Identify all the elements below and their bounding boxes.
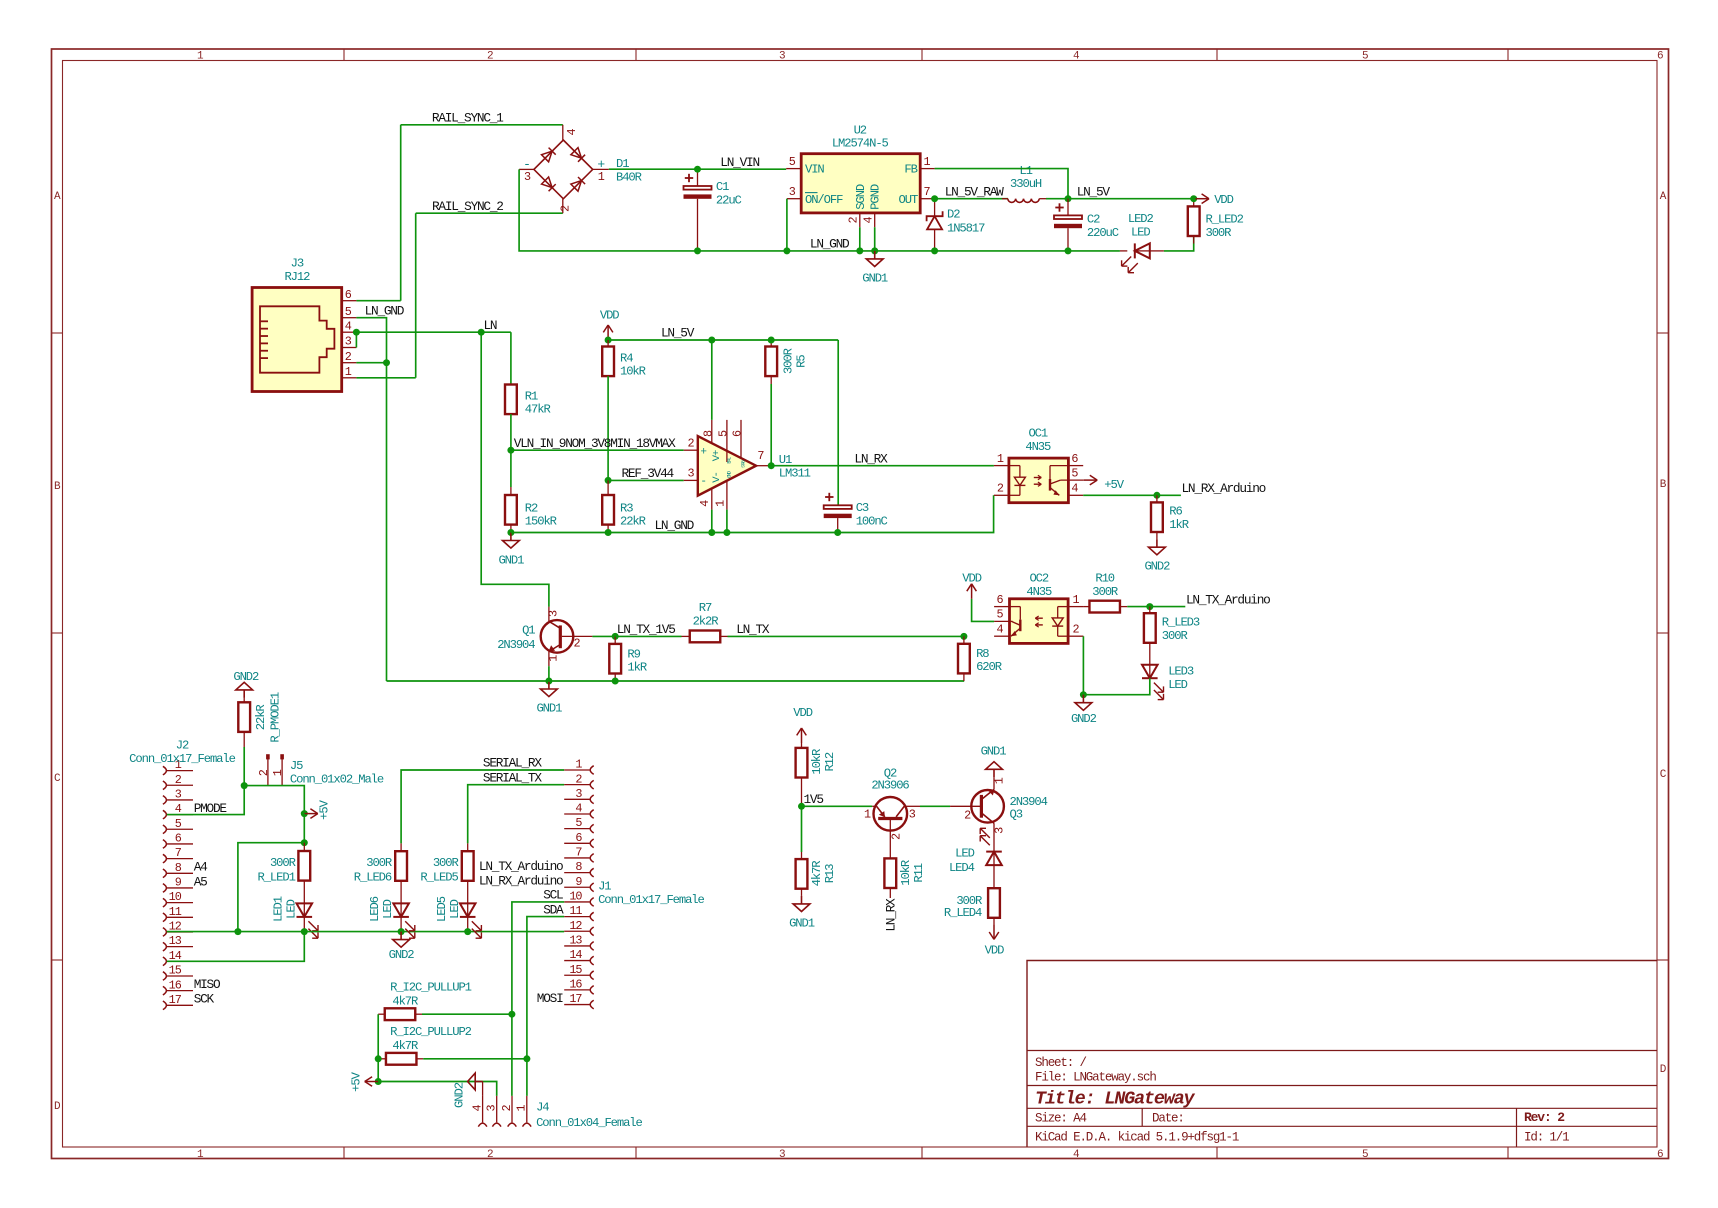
wire J3 pin5 LN_GND down [356, 318, 386, 681]
svg-text:7: 7 [923, 185, 930, 199]
svg-text:8: 8 [575, 860, 582, 874]
wire opamp pin1 gnd [726, 510, 728, 533]
svg-text:2: 2 [175, 773, 182, 787]
label J2 Conn_01x17_Female [129, 738, 235, 766]
junction Q1 emitter [545, 678, 552, 685]
capacitor C2 220uC [1054, 199, 1082, 251]
ground GND2 at J4 [468, 1073, 483, 1096]
svg-text:R7: R7 [699, 601, 712, 615]
svg-text:4N35: 4N35 [1025, 440, 1051, 454]
resistor R_LED2 [1188, 199, 1200, 244]
svg-text:1: 1 [345, 365, 352, 379]
junction ON/OFF gnd [783, 247, 790, 254]
svg-text:47kR: 47kR [525, 403, 551, 417]
svg-text:GND1: GND1 [981, 745, 1007, 759]
label C3 100nC [856, 501, 888, 529]
ground GND1 below R2 [510, 533, 512, 541]
svg-text:1: 1 [864, 807, 871, 821]
label OC1 4N35 [1025, 427, 1051, 454]
connector J2 Conn_01x17_Female [163, 758, 193, 1009]
svg-text:J3: J3 [291, 257, 304, 271]
wire 1V5 to Q2 [802, 805, 873, 807]
svg-text:6: 6 [731, 430, 745, 437]
wire J3 pin3 link [355, 332, 357, 347]
junction J3 pin4 [353, 329, 360, 336]
svg-text:2: 2 [890, 833, 904, 840]
resistor R11 10kR [884, 852, 896, 898]
svg-text:3: 3 [175, 788, 182, 802]
svg-text:4: 4 [1073, 51, 1080, 63]
wire R5 to output [770, 384, 772, 466]
label D2 1N5817 [947, 208, 985, 236]
wire SCL [512, 902, 564, 1096]
label LED2 [1128, 212, 1154, 239]
svg-text:SERIAL_RX: SERIAL_RX [483, 756, 542, 771]
wire LN_GND mid rail [511, 495, 994, 532]
svg-text:R6: R6 [1169, 505, 1182, 519]
svg-text:220uC: 220uC [1087, 226, 1119, 240]
svg-text:2: 2 [487, 51, 493, 63]
svg-text:300R: 300R [366, 856, 392, 870]
junction branch pin12 [234, 928, 241, 935]
junction LED5 bottom [464, 928, 471, 935]
svg-text:Conn_01x17_Female: Conn_01x17_Female [129, 752, 235, 766]
label R_LED4 300R [944, 894, 982, 920]
wire SERIAL_RX [401, 770, 564, 843]
svg-text:LN: LN [484, 318, 497, 333]
wire SERIAL_TX [468, 785, 565, 844]
svg-text:LN_TX_Arduino: LN_TX_Arduino [479, 859, 563, 874]
svg-text:B: B [54, 481, 61, 493]
svg-text:LM311: LM311 [779, 466, 811, 480]
svg-text:Q1: Q1 [522, 624, 535, 638]
wire GND1 rail [387, 680, 965, 682]
junction R8 top [960, 633, 967, 640]
wire FB loop [935, 169, 1068, 199]
svg-text:Conn_01x17_Female: Conn_01x17_Female [598, 893, 704, 907]
svg-text:Size: A4: Size: A4 [1035, 1112, 1086, 1126]
resistor R_LED3 [1144, 607, 1156, 665]
svg-text:4k7R: 4k7R [392, 1039, 418, 1053]
svg-text:R5: R5 [794, 355, 808, 368]
label R13 4k7R [810, 861, 837, 887]
junction GND2 OC2 [1080, 691, 1087, 698]
wire Q1 base to LN_TX_1V5 [592, 635, 615, 637]
svg-text:5: 5 [789, 155, 796, 169]
svg-text:10kR: 10kR [620, 364, 646, 378]
svg-text:4: 4 [862, 216, 876, 223]
wire OC2 pin2 to GND2 [1083, 636, 1149, 695]
svg-text:SCK: SCK [194, 992, 215, 1007]
svg-text:LED2: LED2 [1128, 212, 1154, 226]
svg-text:GND2: GND2 [453, 1082, 467, 1108]
junction C2 bottom [1065, 247, 1072, 254]
resistor R1 [505, 385, 517, 415]
svg-text:A: A [1660, 191, 1667, 203]
svg-text:J1: J1 [598, 880, 611, 894]
svg-text:2: 2 [257, 769, 271, 776]
bridge rectifier D1 [519, 125, 609, 213]
svg-text:FB: FB [904, 163, 917, 177]
junction R_LED3 top [1146, 603, 1153, 610]
resistor R10 300R [1083, 601, 1127, 613]
label D1 B40R [616, 157, 642, 185]
svg-text:1kR: 1kR [1169, 518, 1188, 532]
svg-text:VDD: VDD [985, 944, 1004, 958]
wire PMODE [167, 786, 244, 815]
svg-text:8: 8 [175, 861, 182, 875]
svg-text:LN_VIN: LN_VIN [720, 155, 759, 170]
svg-text:5: 5 [1071, 466, 1078, 480]
label R6 1kR [1169, 505, 1188, 533]
svg-text:GND2: GND2 [389, 948, 415, 962]
svg-text:2: 2 [500, 1104, 514, 1111]
junction R9 bottom [612, 678, 619, 685]
svg-text:8: 8 [702, 430, 716, 437]
wire LN_TX [728, 635, 964, 637]
svg-text:620R: 620R [976, 660, 1002, 674]
optocoupler OC1 4N35 [994, 452, 1084, 503]
svg-text:C3: C3 [856, 501, 869, 515]
diode D2 1N5817 [927, 199, 943, 251]
resistor R12 10kR [796, 743, 808, 806]
junction R_LED2 top [1190, 195, 1197, 202]
label R_LED2 300R [1206, 212, 1244, 240]
power +5V at J5 [304, 813, 318, 815]
svg-text:2: 2 [847, 216, 861, 223]
resistor R3 [602, 480, 614, 532]
svg-text:4: 4 [698, 500, 712, 507]
transistor Q1 2N3904 [541, 607, 593, 667]
wire Q1 emitter to rail [548, 666, 550, 681]
led LED3 [1142, 665, 1164, 700]
svg-text:1: 1 [713, 500, 727, 507]
svg-text:RJ12: RJ12 [284, 270, 310, 284]
svg-text:GND1: GND1 [862, 271, 888, 285]
capacitor C3 100nC [824, 493, 852, 533]
resistor R5 [765, 340, 777, 384]
svg-text:2: 2 [964, 809, 971, 823]
svg-text:10: 10 [569, 890, 582, 904]
junction C3 bottom [834, 529, 841, 536]
svg-text:OC1: OC1 [1028, 427, 1047, 441]
svg-text:R_LED2: R_LED2 [1206, 212, 1244, 226]
svg-text:OUT: OUT [899, 193, 918, 207]
label R_LED6 300R [354, 856, 392, 884]
led LED1 [297, 903, 319, 938]
svg-text:4k7R: 4k7R [392, 995, 418, 1009]
svg-text:V+: V+ [711, 450, 723, 461]
junction pin1 gnd [723, 529, 730, 536]
svg-text:4: 4 [996, 622, 1003, 636]
svg-text:2N3904: 2N3904 [497, 638, 535, 652]
label R9 1kR [627, 648, 646, 675]
junction opamp output [768, 462, 775, 469]
ground GND1 below Q1 [548, 681, 550, 689]
junction +5V J4 [375, 1078, 382, 1085]
svg-text:3: 3 [547, 610, 561, 617]
svg-text:5: 5 [175, 817, 182, 831]
label C1 22uC [716, 180, 742, 208]
svg-text:R_I2C_PULLUP2: R_I2C_PULLUP2 [390, 1025, 472, 1039]
svg-text:C: C [54, 773, 61, 785]
junction LN_TX_1V5 [612, 633, 619, 640]
svg-text:LED: LED [448, 899, 462, 918]
junction R2 bottom [507, 529, 514, 536]
svg-text:2: 2 [997, 482, 1004, 496]
svg-text:5: 5 [996, 608, 1003, 622]
ground GND1 below R13 [801, 896, 803, 904]
wire R4 to REF node [607, 376, 609, 480]
junction J5 node [241, 782, 248, 789]
svg-text:Rev: 2: Rev: 2 [1524, 1110, 1565, 1125]
svg-text:1: 1 [547, 655, 561, 662]
label R1 47kR [525, 390, 551, 417]
svg-text:7: 7 [757, 449, 764, 463]
ground GND1 at U2 [874, 251, 876, 259]
svg-text:GND2: GND2 [1071, 712, 1097, 726]
svg-text:4N35: 4N35 [1026, 585, 1052, 599]
ground GND1 above Q3 [993, 769, 995, 777]
svg-text:LED6: LED6 [368, 896, 382, 922]
svg-text:LN_TX: LN_TX [736, 622, 770, 637]
svg-text:LN_GND: LN_GND [655, 518, 695, 533]
junction R3 bottom [605, 529, 612, 536]
ground GND2 above R_PMODE1 [243, 690, 245, 698]
junction pullup2 left [375, 1055, 382, 1062]
svg-text:RAIL_SYNC_1: RAIL_SYNC_1 [432, 111, 504, 126]
svg-text:16: 16 [169, 978, 182, 992]
svg-text:1V5: 1V5 [804, 792, 824, 807]
label R_LED3 300R [1162, 616, 1200, 644]
wire LN_TX_Arduino [1127, 606, 1185, 608]
svg-text:LN_RX: LN_RX [854, 451, 888, 466]
svg-text:D2: D2 [947, 208, 960, 222]
label R10 300R [1092, 572, 1118, 599]
svg-text:12: 12 [569, 919, 582, 933]
junction VDD R4 [605, 337, 612, 344]
wire LN down to Q1 [481, 332, 549, 607]
label R8 620R [976, 647, 1002, 674]
svg-text:2N3906: 2N3906 [871, 779, 909, 793]
wire LN_GND rail top [519, 169, 1120, 251]
junction pin4 gnd [708, 529, 715, 536]
svg-text:3: 3 [345, 335, 352, 349]
svg-text:C1: C1 [716, 180, 729, 194]
svg-text:R13: R13 [823, 864, 837, 883]
svg-text:300R: 300R [1206, 226, 1232, 240]
svg-text:LN_5V_RAW: LN_5V_RAW [945, 184, 1004, 199]
regulator U2 LM2574N-5 [786, 154, 934, 228]
junction LED6 bottom [398, 928, 405, 935]
label J4 Conn_01x04_Female [536, 1100, 642, 1130]
svg-text:17: 17 [169, 993, 182, 1007]
label R5 300R [781, 348, 808, 374]
wire J3 pin2 [356, 362, 386, 364]
svg-text:1: 1 [197, 51, 204, 63]
svg-text:LN_TX_1V5: LN_TX_1V5 [617, 622, 675, 637]
svg-text:PGND: PGND [869, 184, 883, 210]
svg-text:LED4: LED4 [949, 861, 975, 875]
junction D2 top [931, 195, 938, 202]
svg-text:9: 9 [575, 875, 582, 889]
led LED4 [980, 828, 1002, 888]
svg-text:RAIL_SYNC_2: RAIL_SYNC_2 [432, 199, 503, 214]
junction J3 pin2 [383, 359, 390, 366]
svg-text:7: 7 [575, 846, 582, 860]
label Q3 2N3904 [1010, 795, 1048, 822]
wire VLN to opamp [511, 449, 684, 451]
svg-text:R2: R2 [525, 502, 538, 516]
svg-text:1: 1 [271, 769, 285, 776]
led LED2 [1120, 243, 1164, 272]
svg-text:300R: 300R [433, 856, 459, 870]
wire LN_5V to C3 [837, 340, 839, 505]
svg-text:3: 3 [687, 467, 694, 481]
svg-text:B: B [1660, 479, 1667, 491]
label LED5 vertical [435, 896, 462, 922]
svg-text:LN_GND: LN_GND [810, 236, 850, 251]
svg-text:L1: L1 [1019, 164, 1032, 178]
svg-text:4: 4 [470, 1104, 484, 1111]
wire R_LED1 branch left [238, 843, 304, 932]
ground GND2 below R6 [1156, 539, 1158, 547]
connector J5 Conn_01x02_Male [257, 754, 285, 785]
svg-text:A: A [54, 191, 61, 203]
label J3 RJ12 [284, 257, 310, 284]
svg-text:11: 11 [569, 904, 582, 918]
svg-text:10: 10 [169, 890, 182, 904]
svg-text:300R: 300R [270, 856, 296, 870]
svg-text:3: 3 [575, 787, 582, 801]
wire U2 PGND down [874, 227, 876, 251]
label R_I2C_PULLUP2 4k7R [390, 1025, 472, 1053]
wire LN_RX [771, 465, 994, 467]
resistor R7 2k2R [615, 631, 727, 643]
svg-text:LN_GND: LN_GND [365, 303, 405, 318]
svg-text:R1: R1 [525, 390, 538, 404]
ground GND2 below LED6 [400, 932, 402, 940]
junction LN_5V [1065, 195, 1072, 202]
label LED3 [1168, 664, 1194, 692]
svg-text:D: D [1660, 1064, 1667, 1076]
svg-text:2: 2 [559, 205, 573, 212]
svg-text:R9: R9 [627, 648, 640, 662]
svg-text:7: 7 [175, 846, 182, 860]
resistor R_LED1 300R [298, 843, 310, 904]
junction REF node [605, 477, 612, 484]
label LED1 vertical [271, 896, 298, 922]
svg-text:R_LED3: R_LED3 [1162, 616, 1200, 630]
svg-text:MOSI: MOSI [537, 991, 563, 1006]
wire R1 to VLN node [510, 414, 512, 450]
power VDD right of R_LED2 [1196, 198, 1210, 200]
label J5 Conn_01x02_Male [290, 759, 384, 787]
wire L1 to LN_5V node [1046, 198, 1068, 200]
capacitor C1 [684, 169, 712, 251]
junction D2 bottom [931, 247, 938, 254]
label R7 2k2R [693, 601, 719, 628]
svg-text:5: 5 [575, 816, 582, 830]
junction R6 top [1153, 492, 1160, 499]
svg-text:1: 1 [598, 170, 605, 184]
svg-text:VLN_IN_9NOM_3V8MIN_18VMAX: VLN_IN_9NOM_3V8MIN_18VMAX [514, 436, 676, 451]
resistor R_I2C_PULLUP2 4k7R [378, 1053, 527, 1065]
transistor Q2 2N3906 [864, 797, 920, 852]
label R11 10kR [899, 860, 926, 886]
svg-text:VDD: VDD [1214, 193, 1233, 207]
svg-text:1N5817: 1N5817 [947, 221, 985, 235]
resistor R6 [1151, 495, 1163, 539]
svg-text:C2: C2 [1087, 212, 1100, 226]
svg-text:Date:: Date: [1152, 1112, 1184, 1126]
label R3 22kR [620, 502, 646, 529]
svg-text:9: 9 [175, 876, 182, 890]
junction pin8 top [708, 337, 715, 344]
svg-text:1: 1 [997, 452, 1004, 466]
label L1 330uH [1010, 164, 1042, 191]
wire +5V to J4 pin3 [378, 1082, 497, 1096]
resistor R_LED6 300R [395, 843, 407, 903]
resistor R4 [602, 340, 614, 376]
label LED4 [949, 846, 975, 875]
svg-text:11: 11 [169, 905, 182, 919]
junction C1 bottom [694, 247, 701, 254]
svg-text:J5: J5 [290, 759, 303, 773]
svg-text:2: 2 [345, 350, 352, 364]
svg-text:1kR: 1kR [627, 661, 646, 675]
resistor R13 4k7R [796, 806, 808, 896]
svg-text:GND1: GND1 [498, 554, 524, 568]
svg-text:+5V: +5V [318, 799, 332, 819]
power +5V at OC1 pin5 [1084, 479, 1098, 481]
power VDD at R4 [607, 325, 609, 340]
label U2 LM2574N-5 [832, 123, 889, 150]
svg-text:R8: R8 [976, 647, 989, 661]
junction LED1 bottom [301, 928, 308, 935]
svg-text:LN_5V: LN_5V [661, 326, 695, 341]
transistor Q3 2N3904 [950, 777, 1007, 851]
svg-text:13: 13 [169, 934, 182, 948]
wire opamp pin4 gnd [711, 510, 713, 533]
svg-text:VDD: VDD [600, 308, 619, 322]
wire J5 to +5V node [244, 786, 304, 814]
wire LN_5V_RAW [935, 198, 1008, 200]
svg-text:-: - [700, 476, 706, 488]
svg-text:SERIAL_TX: SERIAL_TX [483, 770, 542, 785]
wire J3 pin4 LN [356, 331, 511, 333]
svg-text:R_PMODE1: R_PMODE1 [268, 692, 282, 742]
svg-text:MISO: MISO [194, 977, 221, 992]
wire LED2 to R_LED2 [1164, 236, 1194, 251]
junction node LN [478, 329, 485, 336]
resistor R_PMODE1 22kR [238, 698, 250, 786]
svg-text:C: C [1660, 769, 1667, 781]
svg-text:OC2: OC2 [1029, 572, 1048, 586]
svg-text:4: 4 [1071, 482, 1078, 496]
label R2 150kR [525, 502, 557, 529]
wire R1 top [510, 332, 512, 384]
wire pullup left link [377, 1014, 379, 1081]
svg-text:22kR: 22kR [620, 515, 646, 529]
svg-text:1: 1 [923, 155, 930, 169]
svg-text:1: 1 [575, 758, 582, 772]
svg-text:4: 4 [1073, 1149, 1080, 1161]
svg-text:GND1: GND1 [536, 702, 562, 716]
svg-text:3: 3 [485, 1104, 499, 1111]
svg-text:Conn_01x04_Female: Conn_01x04_Female [536, 1116, 642, 1130]
svg-text:LED: LED [284, 899, 298, 918]
